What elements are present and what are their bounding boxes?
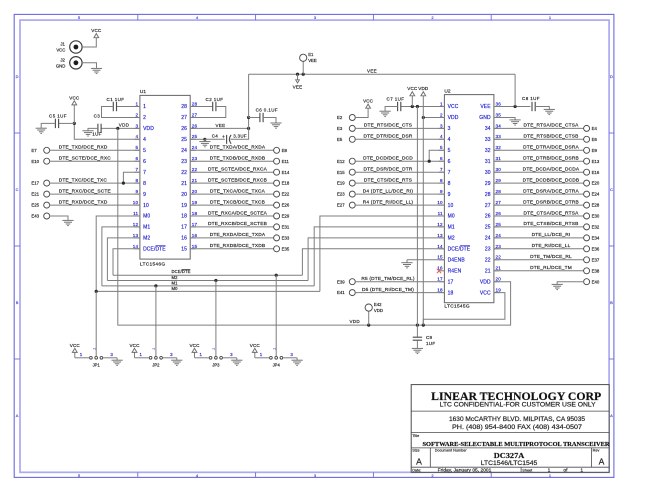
- svg-text:PH. (408) 954-8400 FAX (408): PH. (408) 954-8400 FAX (408) 434-0507: [452, 424, 583, 431]
- net label DTE_RTSA/DCE_CTSA: [524, 123, 580, 129]
- svg-text:2: 2: [92, 348, 96, 350]
- net label DTE_RTS/DCE_CTS: [364, 123, 412, 129]
- svg-text:7: 7: [440, 167, 443, 172]
- net label DTE_SCTEB/DCE_RXCB: [208, 177, 267, 183]
- wire: [320, 216, 445, 291]
- svg-text:17: 17: [448, 279, 454, 285]
- wire: [248, 74, 250, 117]
- svg-text:DTE_CTSB/DCE_RTSB: DTE_CTSB/DCE_RTSB: [524, 221, 579, 227]
- svg-text:VEE: VEE: [308, 58, 317, 63]
- wire: [494, 118, 515, 120]
- svg-text:R5 (DTE_TM/DCE_RL): R5 (DTE_TM/DCE_RL): [361, 276, 415, 282]
- net label DTE_LL/DCE_RI: [532, 232, 571, 238]
- wire: [190, 149, 274, 151]
- svg-text:E40: E40: [592, 279, 600, 284]
- svg-text:6: 6: [136, 156, 139, 161]
- ground at U2 pin 15: [401, 260, 412, 268]
- ground at JP1: [112, 360, 123, 365]
- ground at E43: [62, 220, 73, 225]
- svg-text:34: 34: [496, 123, 502, 128]
- svg-text:11: 11: [133, 211, 138, 216]
- net label DTE_CTSB/DCE_RTSB: [524, 221, 579, 227]
- svg-text:19: 19: [192, 200, 198, 205]
- svg-text:VCC: VCC: [130, 343, 141, 348]
- svg-text:DTE_DSRA/DCE_DTRA: DTE_DSRA/DCE_DTRA: [523, 188, 579, 194]
- svg-text:E4: E4: [592, 126, 598, 131]
- svg-text:DTE_CTS/DCE_RTS: DTE_CTS/DCE_RTS: [364, 177, 412, 183]
- net label DTE_DSR/DCE_DTR: [363, 167, 412, 173]
- svg-text:28: 28: [181, 104, 187, 110]
- wire: [190, 193, 274, 195]
- svg-text:DTE_DSR/DCE_DTR: DTE_DSR/DCE_DTR: [363, 167, 412, 173]
- net label DTE_DTR/DCE_DSR: [363, 134, 412, 140]
- svg-text:DTE_RXCB/DCE_SCTEB: DTE_RXCB/DCE_SCTEB: [208, 221, 267, 227]
- ground at C5: [36, 128, 47, 133]
- connector pad E10: [31, 158, 49, 164]
- node junction JP2 bus: [154, 284, 157, 287]
- connector pad E18: [274, 180, 290, 186]
- wire: [494, 182, 584, 184]
- svg-text:8: 8: [143, 181, 146, 187]
- power VCC at J1: [91, 28, 102, 38]
- svg-text:27: 27: [181, 115, 187, 121]
- connector pad E25: [31, 202, 49, 208]
- svg-text:A: A: [416, 456, 422, 466]
- svg-text:A: A: [610, 413, 613, 418]
- power VCC at JP3: [190, 343, 201, 353]
- svg-text:VEE: VEE: [216, 123, 226, 128]
- svg-text:DTE_DTRA/DCE_DSRA: DTE_DTRA/DCE_DSRA: [523, 145, 579, 151]
- svg-text:Sheet: Sheet: [522, 468, 533, 472]
- title block title: [412, 434, 610, 448]
- svg-text:VCC: VCC: [70, 343, 81, 348]
- svg-text:1: 1: [548, 468, 551, 474]
- ground at C7: [380, 111, 391, 116]
- svg-text:10: 10: [437, 200, 443, 205]
- svg-text:16: 16: [181, 236, 187, 242]
- svg-text:E25: E25: [31, 203, 39, 208]
- svg-text:32: 32: [485, 148, 491, 154]
- IC U1 LTC1546G pin stubs: [134, 107, 196, 249]
- svg-text:E33: E33: [282, 236, 290, 241]
- svg-text:14: 14: [133, 244, 139, 249]
- node junction JP3 bus: [214, 279, 217, 282]
- svg-text:6: 6: [448, 159, 451, 165]
- svg-text:13: 13: [133, 233, 139, 238]
- wire: [190, 237, 274, 239]
- wire: [88, 128, 98, 130]
- connector pad E13: [584, 158, 600, 164]
- svg-text:DTE_TXCA/DCE_TXCA: DTE_TXCA/DCE_TXCA: [210, 188, 266, 194]
- svg-text:D4 (DTE_LL/DCE_RI): D4 (DTE_LL/DCE_RI): [363, 188, 414, 194]
- svg-text:29: 29: [496, 178, 502, 183]
- net label DTE_DTRB/DCE_DSRB: [523, 156, 579, 162]
- net label M2: [172, 275, 179, 280]
- wire: [494, 204, 584, 206]
- connector pad E20: [584, 180, 600, 186]
- net label DTE_DSRA/DCE_DTRA: [523, 188, 579, 194]
- svg-text:26: 26: [181, 126, 187, 132]
- svg-text:Size: Size: [412, 449, 419, 453]
- svg-text:9: 9: [136, 189, 139, 194]
- svg-text:DTE_DCD/DCE_DCD: DTE_DCD/DCE_DCD: [363, 156, 413, 162]
- node VDD rail junction: [422, 324, 425, 327]
- svg-text:24: 24: [485, 236, 491, 242]
- svg-text:JP4: JP4: [273, 363, 281, 368]
- connector J2 GND: [56, 57, 82, 69]
- svg-text:R4EN: R4EN: [448, 268, 462, 274]
- power VCC at JP1: [70, 343, 81, 353]
- svg-text:20: 20: [192, 189, 198, 194]
- wire: [248, 118, 250, 129]
- svg-text:18: 18: [181, 214, 187, 220]
- net label DTE_TXD/DCE_RXD: [59, 145, 108, 151]
- svg-text:23: 23: [496, 244, 502, 249]
- svg-text:DTE_RXDB/DCE_TXDB: DTE_RXDB/DCE_TXDB: [210, 243, 266, 249]
- wire: [190, 127, 248, 129]
- svg-text:E24: E24: [592, 192, 600, 197]
- svg-text:31: 31: [496, 156, 502, 161]
- wire: [355, 182, 445, 184]
- wire: [49, 216, 68, 220]
- power VCC above U2: [407, 86, 418, 96]
- svg-text:DTE_SCTE/DCE_RXC: DTE_SCTE/DCE_RXC: [59, 156, 112, 162]
- svg-text:C: C: [610, 187, 613, 192]
- wire: [355, 281, 445, 283]
- connector pad E26: [274, 202, 290, 208]
- svg-text:E7: E7: [31, 148, 37, 153]
- capacitor C1: [107, 97, 125, 111]
- svg-text:8: 8: [440, 178, 443, 183]
- ground at JP3: [231, 360, 242, 365]
- wire: [355, 127, 445, 129]
- connector pad E28: [584, 202, 600, 208]
- net label DTE_TXCA/DCE_TXCA: [210, 188, 266, 194]
- svg-text:36: 36: [496, 101, 502, 106]
- svg-text:22: 22: [181, 170, 187, 176]
- net label VEE rail: [367, 68, 377, 73]
- net label DTE_DCDB/DCE_DCDB: [523, 177, 580, 183]
- net label DTE_RXCB/DCE_SCTEB: [208, 221, 267, 227]
- connector pad E4: [584, 125, 598, 131]
- wire: [190, 215, 274, 217]
- svg-text:E35: E35: [282, 246, 290, 251]
- svg-text:6: 6: [440, 156, 443, 161]
- svg-text:DTE_DCDB/DCE_DCDB: DTE_DCDB/DCE_DCDB: [523, 177, 580, 183]
- wire: [416, 340, 418, 348]
- wire: [416, 107, 418, 326]
- svg-text:E39: E39: [337, 279, 345, 284]
- wire: [401, 106, 445, 108]
- connector pad E30: [584, 213, 600, 219]
- svg-text:M1: M1: [143, 225, 150, 231]
- net label R5 (DTE_TM/DCE_RL): [361, 276, 415, 282]
- svg-text:E22: E22: [282, 192, 290, 197]
- svg-text:5: 5: [143, 148, 146, 154]
- svg-text:20: 20: [181, 192, 187, 198]
- power VCC at JP2: [130, 343, 141, 353]
- svg-text:21: 21: [496, 266, 502, 271]
- svg-text:DTE_TXC/DCE_TXC: DTE_TXC/DCE_TXC: [59, 177, 108, 183]
- svg-text:18: 18: [192, 211, 198, 216]
- svg-text:E1: E1: [308, 52, 314, 57]
- net label DTE_TXC/DCE_TXC: [59, 177, 108, 183]
- svg-text:E19: E19: [337, 181, 345, 186]
- wire: [205, 138, 225, 140]
- wire: [407, 259, 444, 261]
- net label DTE_RL/DCE_TM: [530, 265, 572, 271]
- connector pad E5: [337, 136, 355, 142]
- wire: [416, 325, 418, 337]
- svg-text:27: 27: [485, 203, 491, 209]
- svg-text:22: 22: [485, 258, 491, 264]
- svg-text:DTE_DSRB/DCE_DTRB: DTE_DSRB/DCE_DTRB: [523, 199, 579, 205]
- svg-text:28: 28: [496, 189, 502, 194]
- wire: [368, 311, 370, 325]
- svg-text:5: 5: [448, 148, 451, 154]
- svg-text:12: 12: [437, 222, 443, 227]
- net label M0: [172, 286, 179, 291]
- svg-text:U2: U2: [444, 88, 450, 94]
- wire: [190, 138, 205, 140]
- connector pad E32: [584, 224, 600, 230]
- power VCC at E2: [363, 99, 374, 109]
- svg-text:C2 1UF: C2 1UF: [206, 97, 224, 102]
- wire bus DCE/DTE: [113, 274, 302, 276]
- wire: [557, 282, 584, 285]
- connector pad E39: [337, 279, 355, 285]
- connector pad E41: [337, 290, 355, 296]
- ground at J2: [91, 68, 102, 73]
- svg-text:3: 3: [448, 126, 451, 132]
- node VEE junction: [247, 127, 250, 130]
- node C6 junction: [247, 116, 250, 119]
- connector pad E7: [31, 147, 49, 153]
- svg-text:18: 18: [448, 290, 454, 296]
- svg-text:12: 12: [133, 222, 139, 227]
- svg-text:E2: E2: [337, 115, 343, 120]
- wire: [190, 160, 274, 162]
- wire: [190, 182, 274, 184]
- wire: [423, 117, 444, 119]
- svg-text:28: 28: [192, 101, 198, 106]
- svg-text:8: 8: [136, 178, 139, 183]
- svg-text:JP3: JP3: [212, 363, 220, 368]
- svg-text:3: 3: [440, 123, 443, 128]
- svg-text:21: 21: [485, 268, 491, 274]
- net label DTE_DCD/DCE_DCD: [363, 156, 413, 162]
- wire: [494, 106, 531, 108]
- svg-text:14: 14: [437, 244, 443, 249]
- svg-text:E3: E3: [337, 126, 343, 131]
- svg-text:2: 2: [212, 348, 216, 350]
- svg-text:30: 30: [485, 170, 491, 176]
- net label DTE_DTRA/DCE_DSRA: [523, 145, 579, 151]
- svg-text:DTE_TM/DCE_RL: DTE_TM/DCE_RL: [530, 254, 572, 260]
- wire: [494, 248, 584, 250]
- capacitor C2: [206, 97, 224, 111]
- svg-text:16: 16: [192, 233, 198, 238]
- svg-text:18: 18: [437, 288, 443, 293]
- svg-text:Title: Title: [412, 434, 419, 438]
- svg-text:E42: E42: [374, 302, 382, 307]
- wire: [49, 193, 140, 195]
- wire: [249, 117, 260, 119]
- wire: [302, 249, 444, 275]
- wire: [59, 122, 75, 124]
- svg-text:1630 McCARTHY BLVD. MILPITAS,: 1630 McCARTHY BLVD. MILPITAS, CA 95035: [449, 416, 586, 423]
- wire: [102, 227, 140, 286]
- svg-text:19: 19: [181, 203, 187, 209]
- svg-text:J1: J1: [60, 42, 65, 47]
- connector pad E38: [584, 268, 600, 274]
- svg-text:GND: GND: [479, 115, 491, 121]
- svg-text:15: 15: [181, 247, 187, 253]
- wire: [123, 172, 139, 183]
- svg-text:DTE_DCDA/DCE_DCDA: DTE_DCDA/DCE_DCDA: [523, 167, 580, 173]
- svg-text:3.3UF: 3.3UF: [233, 133, 247, 138]
- IC U2 LTC1545G pin numbers: [437, 101, 501, 292]
- svg-text:15: 15: [437, 255, 443, 260]
- node junction JP4 bus: [275, 274, 278, 277]
- wire: [263, 118, 276, 124]
- svg-text:M2: M2: [143, 236, 150, 242]
- wire: [49, 204, 140, 206]
- svg-text:C4: C4: [212, 133, 219, 138]
- net label DTE_RXDB/DCE_TXDB: [210, 243, 266, 249]
- svg-text:DC327A: DC327A: [494, 451, 525, 460]
- net label DTE_DCDA/DCE_DCDA: [523, 167, 580, 173]
- svg-text:VEE: VEE: [293, 85, 303, 90]
- svg-text:E15: E15: [337, 170, 345, 175]
- net label DTE_DSRB/DCE_DTRB: [523, 199, 579, 205]
- wire: [494, 226, 584, 228]
- svg-text:E36: E36: [592, 246, 600, 251]
- svg-text:DTE_TXCB/DCE_TXCB: DTE_TXCB/DCE_TXCB: [210, 199, 265, 205]
- svg-text:9: 9: [448, 192, 451, 198]
- connector pad E27: [337, 202, 355, 208]
- connector pad E16: [584, 169, 600, 175]
- ground at E40: [552, 284, 563, 289]
- ground at C8: [544, 109, 555, 114]
- jumper JP4: [255, 348, 297, 368]
- svg-text:DTE_LL/DCE_RI: DTE_LL/DCE_RI: [532, 232, 571, 238]
- svg-text:DTE_SCTEA/DCE_RXCA: DTE_SCTEA/DCE_RXCA: [208, 167, 268, 173]
- svg-text:E18: E18: [282, 181, 290, 186]
- svg-text:E26: E26: [282, 203, 290, 208]
- svg-text:2: 2: [143, 115, 146, 121]
- svg-text:26: 26: [192, 123, 198, 128]
- svg-text:4: 4: [440, 134, 443, 139]
- svg-text:1: 1: [580, 468, 583, 474]
- svg-text:VDD: VDD: [374, 308, 383, 313]
- svg-text:JP1: JP1: [93, 363, 101, 368]
- svg-text:SOFTWARE-SELECTABLE MULTIPROTO: SOFTWARE-SELECTABLE MULTIPROTOCOL TRANSC…: [423, 442, 611, 448]
- wire: [190, 204, 274, 206]
- net label D4 (DTE_LL/DCE_RI): [363, 188, 414, 194]
- IC U2 LTC1545G pin stubs: [439, 107, 500, 293]
- wire: [190, 171, 274, 173]
- connector pad E29: [274, 213, 290, 219]
- svg-text:19: 19: [496, 288, 502, 293]
- IC U1 LTC1546G pin numbers: [133, 101, 198, 248]
- svg-text:C8 1UF: C8 1UF: [522, 96, 540, 101]
- svg-text:DTE_RXC/DCE_SCTE: DTE_RXC/DCE_SCTE: [59, 188, 111, 194]
- svg-text:LTC1546/LTC1545: LTC1546/LTC1545: [481, 460, 538, 467]
- wire: [41, 123, 55, 128]
- svg-text:E29: E29: [282, 214, 290, 219]
- connector pad E33: [274, 235, 290, 241]
- svg-text:E8: E8: [282, 148, 288, 153]
- svg-text:+: +: [222, 135, 225, 141]
- node VDD junction U2: [422, 116, 425, 119]
- svg-text:21: 21: [192, 178, 198, 183]
- svg-text:25: 25: [496, 222, 502, 227]
- net label VEE: [216, 123, 226, 128]
- wire VEE rail: [249, 73, 515, 75]
- wire bus M0: [96, 290, 320, 292]
- wire: [73, 105, 75, 124]
- wire: [49, 149, 140, 151]
- svg-text:E13: E13: [592, 159, 600, 164]
- capacitor C5: [49, 113, 67, 128]
- jumper JP1: [75, 348, 117, 368]
- svg-text:E14: E14: [282, 170, 290, 175]
- svg-text:VDD: VDD: [448, 115, 459, 121]
- svg-text:21: 21: [181, 181, 187, 187]
- wire: [422, 96, 424, 118]
- wire: [74, 123, 140, 139]
- svg-text:13: 13: [437, 233, 443, 238]
- net label DTE_TM/DCE_RL: [530, 254, 572, 260]
- svg-text:J2: J2: [60, 58, 65, 63]
- node E1 drop junction: [302, 73, 305, 76]
- svg-text:33: 33: [496, 134, 502, 139]
- svg-text:M1: M1: [172, 280, 179, 285]
- svg-text:C3: C3: [94, 114, 101, 119]
- wire: [190, 107, 226, 118]
- connector pad E37: [584, 257, 600, 263]
- svg-text:M2: M2: [448, 236, 455, 242]
- wire: [355, 193, 445, 195]
- node C9 junction: [416, 324, 419, 327]
- svg-text:DTE_TXD/DCE_RXD: DTE_TXD/DCE_RXD: [59, 145, 108, 151]
- svg-text:4: 4: [136, 134, 139, 139]
- ground at JP4: [292, 360, 303, 365]
- svg-text:E16: E16: [592, 170, 600, 175]
- svg-text:M0: M0: [172, 286, 179, 291]
- svg-text:C9: C9: [426, 335, 433, 340]
- svg-text:1: 1: [143, 104, 146, 110]
- wire: [494, 149, 584, 151]
- svg-text:E27: E27: [337, 203, 345, 208]
- connector pad E14: [274, 169, 290, 175]
- svg-text:10: 10: [133, 200, 139, 205]
- svg-text:DTE_SCTEB/DCE_RXCB: DTE_SCTEB/DCE_RXCB: [208, 177, 267, 183]
- svg-text:VDD: VDD: [418, 86, 429, 91]
- wire: [107, 238, 139, 281]
- jumper JP3: [195, 348, 237, 368]
- ground at C9: [412, 348, 423, 353]
- capacitor C9: [413, 335, 436, 346]
- net label DTE_RTSB/DCE_CTSB: [524, 134, 579, 140]
- svg-text:E43: E43: [31, 214, 39, 219]
- svg-text:5: 5: [136, 145, 139, 150]
- svg-text:23: 23: [181, 159, 187, 165]
- svg-text:M0: M0: [448, 214, 455, 220]
- title block confidential line: [440, 402, 596, 409]
- svg-text:VCC: VCC: [56, 48, 65, 53]
